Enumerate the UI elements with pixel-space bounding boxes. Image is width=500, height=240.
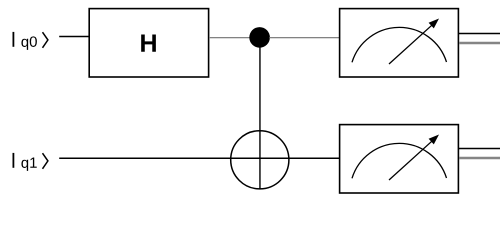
Hadamard gate H box (89, 9, 208, 77)
wire q0 from control to meter (269, 37, 339, 39)
wire q0 from H to control (210, 37, 250, 39)
measurement meter M1 box (340, 125, 459, 193)
CNOT vertical link (259, 37, 261, 188)
classical wire out M1 grey (459, 157, 500, 160)
measurement meter M1 arrowhead (429, 135, 439, 145)
qubit label |q1> rangle (43, 153, 48, 169)
measurement meter M0 box (340, 9, 459, 77)
classical wire out M1 black (459, 148, 500, 150)
qubit label |q0> rangle (43, 32, 48, 48)
wire q1 (59, 157, 339, 159)
qubit label |q0> bar (12, 32, 14, 47)
qubit label q1 text (21, 157, 36, 170)
measurement meter M1 needle (389, 140, 433, 180)
classical wire out M0 grey (459, 42, 500, 45)
CNOT control dot (249, 27, 270, 48)
measurement meter M1 arc (352, 143, 447, 178)
qubit label q0 text (21, 36, 36, 50)
wire q0 input segment (59, 36, 89, 38)
qubit label |q1> bar (12, 153, 14, 168)
measurement meter M0 arrowhead (429, 19, 439, 29)
measurement meter M0 arc (352, 27, 447, 62)
CNOT target circle (231, 131, 289, 189)
Hadamard gate H letter (141, 35, 156, 52)
measurement meter M0 needle (389, 24, 433, 64)
classical wire out M0 black (459, 33, 500, 35)
